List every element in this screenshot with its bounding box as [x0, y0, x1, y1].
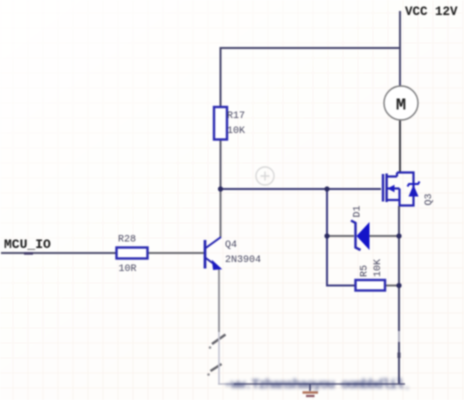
svg-text:10K: 10K	[227, 126, 245, 137]
svg-text:VCC 12V: VCC 12V	[405, 5, 458, 19]
svg-text:10K: 10K	[373, 259, 384, 277]
svg-text:R5: R5	[360, 265, 371, 277]
svg-text:R28: R28	[118, 235, 136, 246]
svg-text:Q3: Q3	[424, 193, 435, 205]
svg-text:-ww.Tzhanshaoyou oombbdlil: -ww.Tzhanshaoyou oombbdlil	[224, 377, 404, 392]
svg-text:Q4: Q4	[225, 240, 237, 251]
svg-text:D1: D1	[353, 205, 364, 217]
svg-text:MCU_IO: MCU_IO	[4, 237, 51, 252]
svg-text:M: M	[396, 97, 406, 116]
svg-text:R17: R17	[227, 111, 245, 122]
svg-text:.: .	[404, 381, 411, 393]
svg-text:10R: 10R	[119, 264, 137, 275]
svg-text:2N3904: 2N3904	[225, 255, 261, 266]
